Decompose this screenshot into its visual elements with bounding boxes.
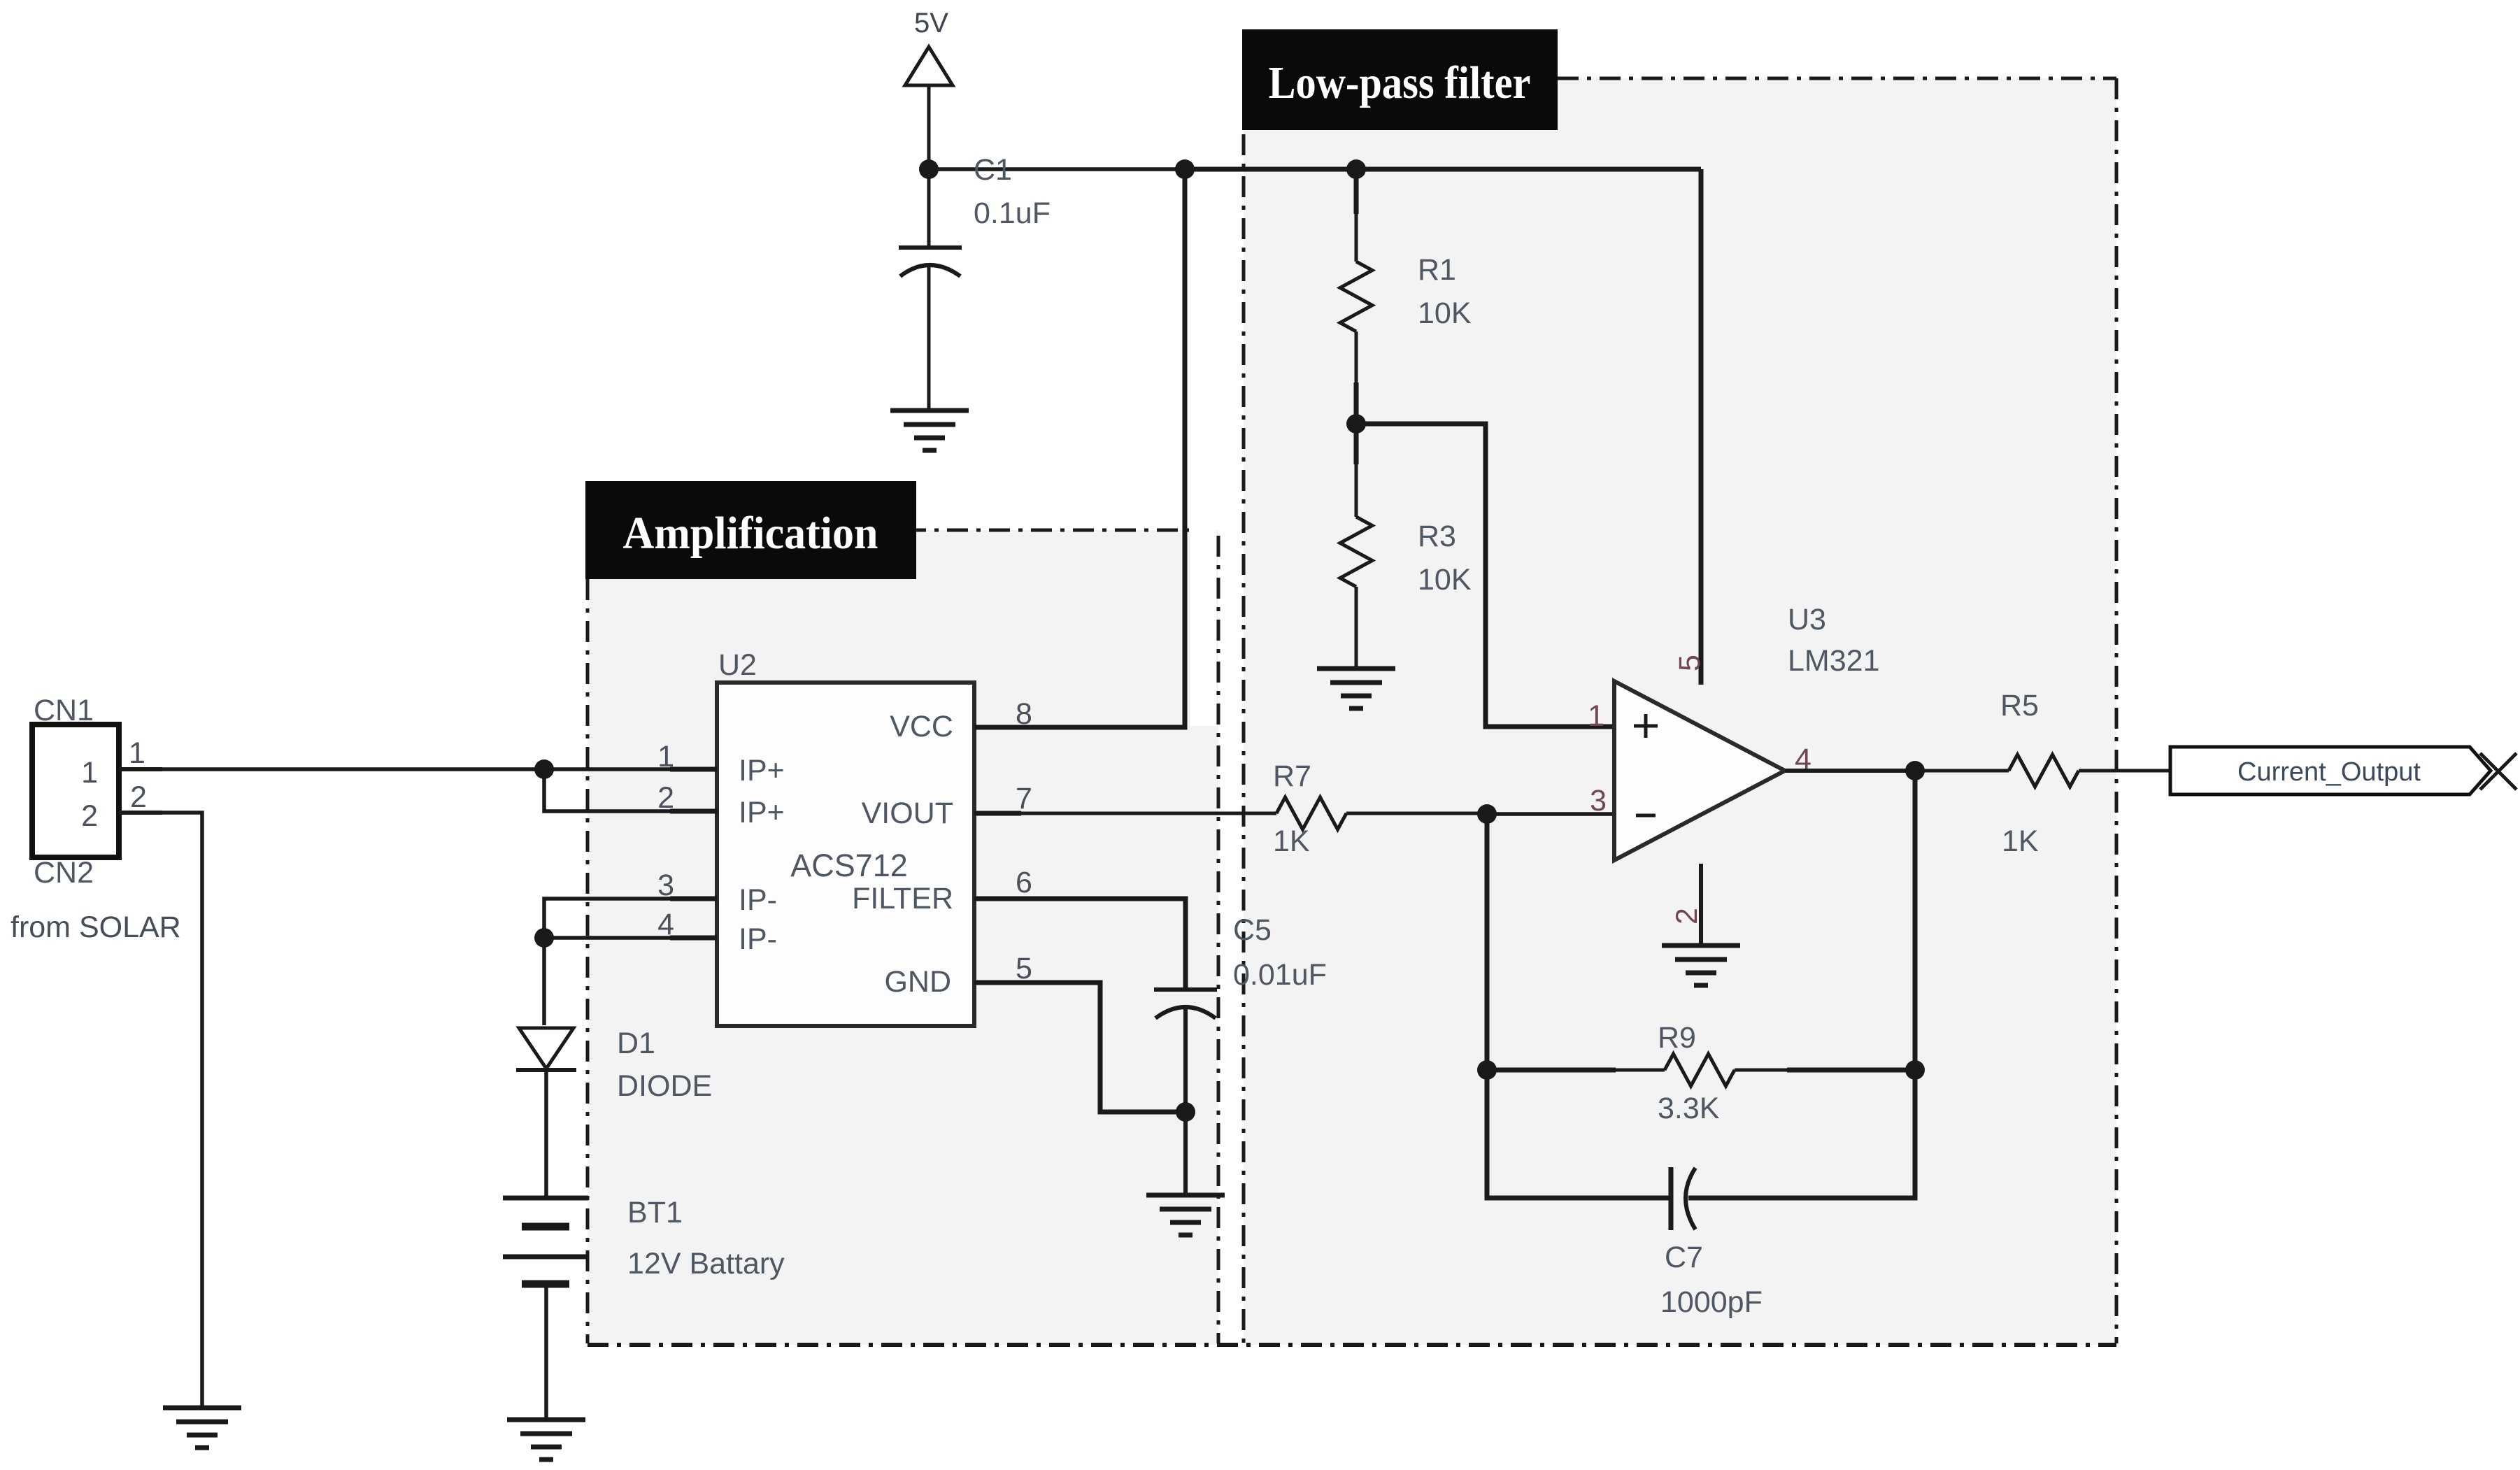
power symbol 5V bbox=[905, 8, 953, 169]
junction output node bbox=[1905, 761, 1925, 780]
svg-text:R3: R3 bbox=[1418, 520, 1456, 553]
wire R9 left lead bbox=[1487, 1068, 1616, 1073]
CN1 pin 1 stub bbox=[119, 767, 162, 771]
svg-text:Current_Output: Current_Output bbox=[2237, 757, 2421, 787]
resistor R7 zigzag bbox=[1276, 797, 1346, 829]
svg-text:from SOLAR: from SOLAR bbox=[10, 911, 181, 944]
U2 pin 7 stub bbox=[974, 811, 1021, 816]
wire node to op-amp - input pin 3 bbox=[1487, 812, 1614, 816]
wire R9 right lead bbox=[1787, 1068, 1915, 1073]
diode D1 bbox=[516, 1027, 712, 1103]
wire R5 to output flag bbox=[2079, 769, 2170, 773]
resistor R3 zigzag bbox=[1340, 517, 1372, 587]
junction GND5/C5 bbox=[1176, 1102, 1195, 1122]
ground below BT1 bbox=[507, 1420, 585, 1460]
U2 pin 6 stub bbox=[974, 897, 1021, 901]
svg-text:CN2: CN2 bbox=[34, 856, 94, 890]
Amplification box right dash-dot border bbox=[1217, 536, 1220, 1343]
junction R9 left bbox=[1477, 1060, 1497, 1080]
wire U2 GND pin5 to C5 bottom bbox=[1021, 983, 1186, 1112]
wire CN1 pin2 to ground bbox=[162, 813, 202, 1408]
svg-text:IP-: IP- bbox=[739, 883, 777, 917]
svg-text:BT1: BT1 bbox=[627, 1196, 683, 1229]
off-page connector Current_Output bbox=[2170, 747, 2517, 794]
svg-text:8: 8 bbox=[1016, 697, 1032, 731]
junction - input node bbox=[1477, 804, 1497, 824]
svg-text:1: 1 bbox=[81, 756, 98, 790]
svg-text:R5: R5 bbox=[2000, 689, 2039, 722]
U2 pin 4 stub bbox=[670, 936, 717, 941]
svg-text:10K: 10K bbox=[1418, 563, 1472, 597]
capacitor C5 0.01uF bbox=[1154, 913, 1327, 1195]
svg-text:1K: 1K bbox=[2002, 825, 2039, 858]
svg-text:2: 2 bbox=[81, 799, 98, 833]
CN1 pin 2 stub bbox=[119, 811, 162, 815]
ground below C1 bbox=[890, 411, 969, 450]
svg-text:1: 1 bbox=[129, 736, 145, 770]
wire divider node to op-amp + input bbox=[1356, 424, 1614, 727]
svg-text:IP-: IP- bbox=[739, 922, 777, 956]
svg-text:VIOUT: VIOUT bbox=[862, 797, 953, 830]
junction R9 right bbox=[1905, 1060, 1925, 1080]
Amplification box left dash-dot border bbox=[586, 579, 590, 1343]
wire output node down to C7 right bbox=[1688, 771, 1915, 1198]
svg-text:R7: R7 bbox=[1273, 759, 1311, 793]
svg-text:IP+: IP+ bbox=[739, 754, 785, 787]
svg-text:5: 5 bbox=[1673, 655, 1707, 671]
svg-text:ACS712: ACS712 bbox=[790, 848, 908, 883]
wire - input node down to R9/C7 left riser bbox=[1487, 814, 1671, 1198]
svg-text:5V: 5V bbox=[914, 8, 948, 38]
U2 pin 8 stub bbox=[974, 725, 1021, 730]
svg-text:1000pF: 1000pF bbox=[1660, 1285, 1763, 1319]
junction 5V/C1 bbox=[919, 159, 939, 179]
Amplification region shading bbox=[588, 530, 1218, 1345]
svg-text:IP+: IP+ bbox=[739, 796, 785, 829]
svg-text:D1: D1 bbox=[617, 1027, 655, 1060]
wire CN1 pin1 to U2 IP+ pin1 bbox=[162, 767, 717, 771]
capacitor C1 0.1uF bbox=[899, 153, 1051, 411]
svg-text:0.01uF: 0.01uF bbox=[1233, 958, 1327, 992]
svg-text:3.3K: 3.3K bbox=[1658, 1092, 1720, 1125]
svg-text:6: 6 bbox=[1016, 866, 1032, 899]
svg-text:3: 3 bbox=[1590, 784, 1607, 818]
ground below CN pin 2 wire bbox=[163, 1408, 241, 1448]
svg-text:Low-pass filter: Low-pass filter bbox=[1269, 57, 1531, 108]
Amplification section label bbox=[585, 481, 916, 579]
wire U2 FILTER pin6 to C5 bbox=[1021, 899, 1186, 990]
svg-text:10K: 10K bbox=[1418, 297, 1472, 330]
svg-text:C5: C5 bbox=[1233, 913, 1272, 947]
Amplification box top dash-dot border bbox=[905, 529, 1189, 532]
svg-text:U3: U3 bbox=[1788, 603, 1826, 636]
Low-pass filter box left dash-dot border bbox=[1242, 134, 1246, 1343]
svg-text:R1: R1 bbox=[1418, 253, 1456, 287]
junction rail/VCC riser bbox=[1175, 159, 1195, 179]
svg-text:LM321: LM321 bbox=[1788, 644, 1879, 678]
wire output node to R5 bbox=[1915, 769, 2009, 773]
wire U2 VCC pin8 to 5V rail bbox=[974, 169, 1185, 727]
connector CN1/CN2 bbox=[32, 694, 119, 890]
wire D1 cathode to BT1 bbox=[544, 1070, 548, 1198]
bottom dash-dot border of both regions bbox=[588, 1343, 2116, 1347]
resistor R1 zigzag bbox=[1340, 262, 1372, 331]
ground below op-amp pin 2 bbox=[1662, 945, 1740, 985]
wire U2 IP- pin4 to diode node bbox=[544, 936, 717, 940]
U2 pin 2 stub bbox=[670, 809, 717, 814]
Low-pass filter region shading bbox=[1244, 78, 2116, 1345]
wire 5V rail (VCC riser to op-amp V+ riser) bbox=[1185, 167, 1701, 172]
svg-text:C7: C7 bbox=[1665, 1241, 1703, 1274]
svg-text:7: 7 bbox=[1016, 782, 1032, 815]
svg-text:VCC: VCC bbox=[890, 710, 953, 743]
svg-text:U2: U2 bbox=[718, 648, 757, 682]
Low-pass filter section label bbox=[1242, 29, 1558, 130]
svg-text:12V Battary: 12V Battary bbox=[627, 1247, 785, 1280]
svg-text:2: 2 bbox=[1670, 908, 1704, 925]
wire U2 VIOUT to R7 bbox=[1021, 812, 1276, 815]
svg-text:Amplification: Amplification bbox=[623, 508, 878, 559]
resistor R1 10K bbox=[1354, 169, 1359, 262]
svg-text:FILTER: FILTER bbox=[852, 882, 953, 915]
wire R9 right thin lead bbox=[1735, 1069, 1787, 1072]
wire op-amp output pin 4 bbox=[1785, 769, 1915, 773]
svg-text:2: 2 bbox=[130, 780, 147, 814]
IC U2 ACS712 body bbox=[717, 648, 974, 1026]
junction rail/R1 bbox=[1346, 159, 1366, 179]
wire BT1 negative to ground bbox=[544, 1284, 548, 1420]
junction R1/R3 divider node bbox=[1346, 414, 1366, 434]
resistor R5 zigzag bbox=[2009, 755, 2079, 787]
op-amp U3 LM321 bbox=[1614, 603, 1879, 860]
resistor R3 10K bbox=[1354, 424, 1359, 464]
svg-text:CN1: CN1 bbox=[34, 694, 94, 727]
op-amp V- pin 2 line bbox=[1699, 864, 1703, 945]
wire R9 left thin lead bbox=[1616, 1069, 1665, 1072]
ground below C5 bbox=[1146, 1195, 1225, 1235]
U2 pin 5 stub bbox=[974, 980, 1021, 985]
junction IP- node bbox=[534, 928, 554, 948]
op-amp V+ pin 5 supply line bbox=[1699, 169, 1704, 685]
svg-text:DIODE: DIODE bbox=[617, 1069, 712, 1103]
svg-text:0.1uF: 0.1uF bbox=[974, 197, 1051, 230]
U2 pin 3 stub bbox=[670, 897, 717, 901]
U2 pin 1 stub bbox=[670, 767, 717, 772]
svg-text:R9: R9 bbox=[1658, 1021, 1696, 1055]
svg-text:1K: 1K bbox=[1273, 825, 1310, 858]
battery BT1 12V bbox=[503, 1196, 785, 1284]
wire 5V rail (5V symbol to VCC riser) bbox=[929, 167, 1185, 171]
svg-text:1: 1 bbox=[1588, 699, 1604, 733]
wire IP+ node to U2 pin2 bbox=[544, 769, 717, 811]
Low-pass filter box right dash-dot border bbox=[2115, 78, 2119, 1343]
ground below R3 bbox=[1317, 669, 1395, 708]
svg-text:GND: GND bbox=[884, 965, 951, 999]
Low-pass filter box top dash-dot border bbox=[1558, 77, 2116, 80]
wire R7 to op-amp - input node bbox=[1346, 812, 1487, 815]
svg-text:C1: C1 bbox=[974, 153, 1012, 187]
junction IP+ node bbox=[534, 759, 554, 779]
resistor R9 zigzag bbox=[1665, 1054, 1735, 1086]
capacitor C7 1000pF bbox=[1660, 1167, 1763, 1319]
wire U2 IP- pin3 to diode node bbox=[544, 899, 717, 1025]
